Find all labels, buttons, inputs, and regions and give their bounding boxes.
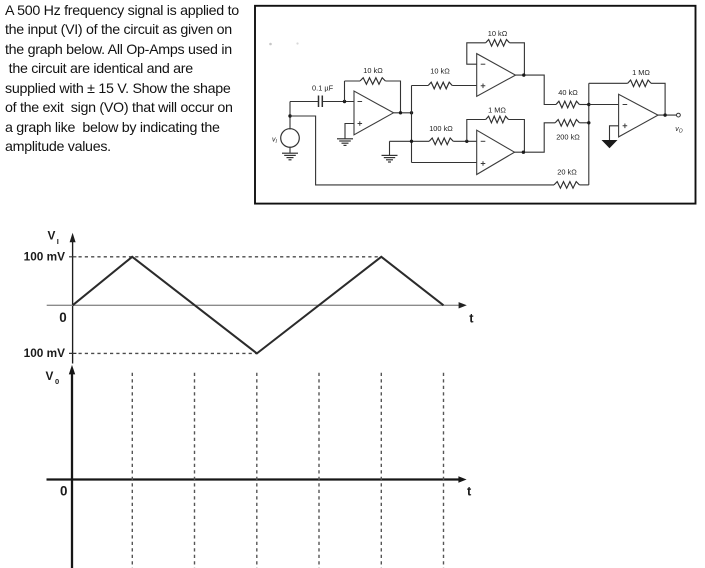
svg-text:vI: vI — [272, 137, 278, 146]
svg-text:1 MΩ: 1 MΩ — [632, 68, 650, 77]
svg-text:0: 0 — [55, 377, 59, 386]
svg-text:200 kΩ: 200 kΩ — [556, 132, 580, 141]
svg-text:10 kΩ: 10 kΩ — [488, 29, 508, 38]
svg-text:20 kΩ: 20 kΩ — [557, 168, 577, 177]
svg-text:t: t — [467, 483, 472, 498]
svg-text:t: t — [469, 310, 474, 325]
svg-text:0: 0 — [59, 310, 66, 325]
svg-text:0.1 µF: 0.1 µF — [312, 83, 334, 92]
svg-text:40 kΩ: 40 kΩ — [558, 88, 578, 97]
svg-text:100 kΩ: 100 kΩ — [429, 124, 453, 133]
svg-text:100 mV: 100 mV — [24, 346, 65, 360]
svg-text:10 kΩ: 10 kΩ — [430, 66, 450, 75]
svg-text:10 kΩ: 10 kΩ — [363, 66, 383, 75]
svg-text:0: 0 — [60, 483, 67, 498]
svg-text:1 MΩ: 1 MΩ — [488, 105, 506, 114]
svg-text:100 mV: 100 mV — [24, 250, 65, 264]
svg-text:V: V — [48, 229, 56, 243]
svg-text:V: V — [46, 369, 54, 383]
svg-text:I: I — [57, 237, 59, 246]
svg-text:vO: vO — [675, 126, 683, 135]
